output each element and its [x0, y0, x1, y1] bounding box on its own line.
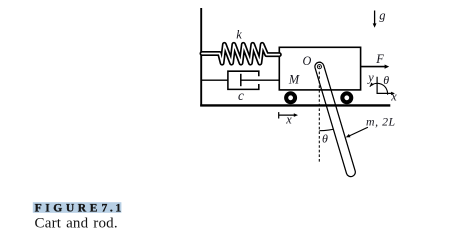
svg-text:c: c: [238, 88, 244, 103]
svg-text:g: g: [379, 8, 385, 22]
svg-text:k: k: [236, 28, 242, 42]
svg-text:x: x: [285, 113, 292, 127]
svg-text:y: y: [366, 71, 374, 85]
svg-text:θ: θ: [322, 132, 328, 146]
svg-text:θ: θ: [383, 73, 389, 87]
svg-text:m, 2L: m, 2L: [366, 114, 396, 128]
svg-text:FIGURE: FIGURE: [35, 202, 101, 215]
svg-text:x: x: [390, 90, 397, 104]
svg-text:F: F: [375, 52, 384, 66]
svg-text:O: O: [303, 54, 312, 68]
svg-text:7.1: 7.1: [102, 202, 124, 215]
svg-text:Cart and rod.: Cart and rod.: [35, 215, 118, 231]
svg-text:M: M: [288, 73, 300, 87]
